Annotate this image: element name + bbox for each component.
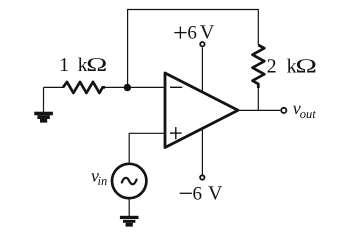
op-amp inverting input minus sign <box>170 86 182 88</box>
label -6 V <box>180 183 223 205</box>
wire from op-amp non-inverting input left and down to source <box>129 133 165 163</box>
ground (left) <box>34 112 53 123</box>
ground (bottom, under source) <box>120 216 139 227</box>
svg-text:Ω: Ω <box>295 55 317 77</box>
wire op-amp bottom edge down to -6V terminal <box>201 129 203 175</box>
terminal -6V open circle <box>200 175 204 179</box>
svg-text:6: 6 <box>187 22 197 43</box>
label 2 kOhm <box>267 55 317 77</box>
wire from R1 through node A to op-amp inverting input <box>105 86 166 88</box>
wire op-amp output to vout terminal <box>238 109 280 111</box>
svg-text:V: V <box>200 21 215 43</box>
label 1 kOhm <box>59 55 107 76</box>
sine wave symbol inside source <box>122 178 137 184</box>
terminal +6V open circle <box>200 42 204 46</box>
resistor R1 1 kOhm (horizontal zigzag) <box>63 82 105 93</box>
source Vin sine source circle <box>112 164 146 198</box>
wire left input segment from ground to resistor R1 <box>44 86 64 88</box>
svg-text:V: V <box>208 183 223 205</box>
wire drop to left ground <box>43 87 45 112</box>
node A junction dot <box>124 84 131 91</box>
wire from R2 down to output node <box>257 88 259 110</box>
svg-text:1: 1 <box>59 55 69 76</box>
op-amp U1 triangle <box>165 73 238 148</box>
wire feedback loop from node A up and across to 2k resistor <box>128 10 259 88</box>
wire +6V supply down to op-amp top edge <box>201 47 203 93</box>
op-amp non-inverting input plus sign <box>170 127 182 139</box>
terminal vout open circle <box>281 108 286 113</box>
svg-text:Ω: Ω <box>86 55 107 76</box>
svg-text:6: 6 <box>193 184 203 205</box>
wire from source bottom to bottom ground <box>128 198 130 216</box>
resistor R2 2 kOhm (vertical zigzag) <box>253 45 265 88</box>
label +6 V <box>174 21 215 43</box>
svg-text:2: 2 <box>267 55 277 77</box>
